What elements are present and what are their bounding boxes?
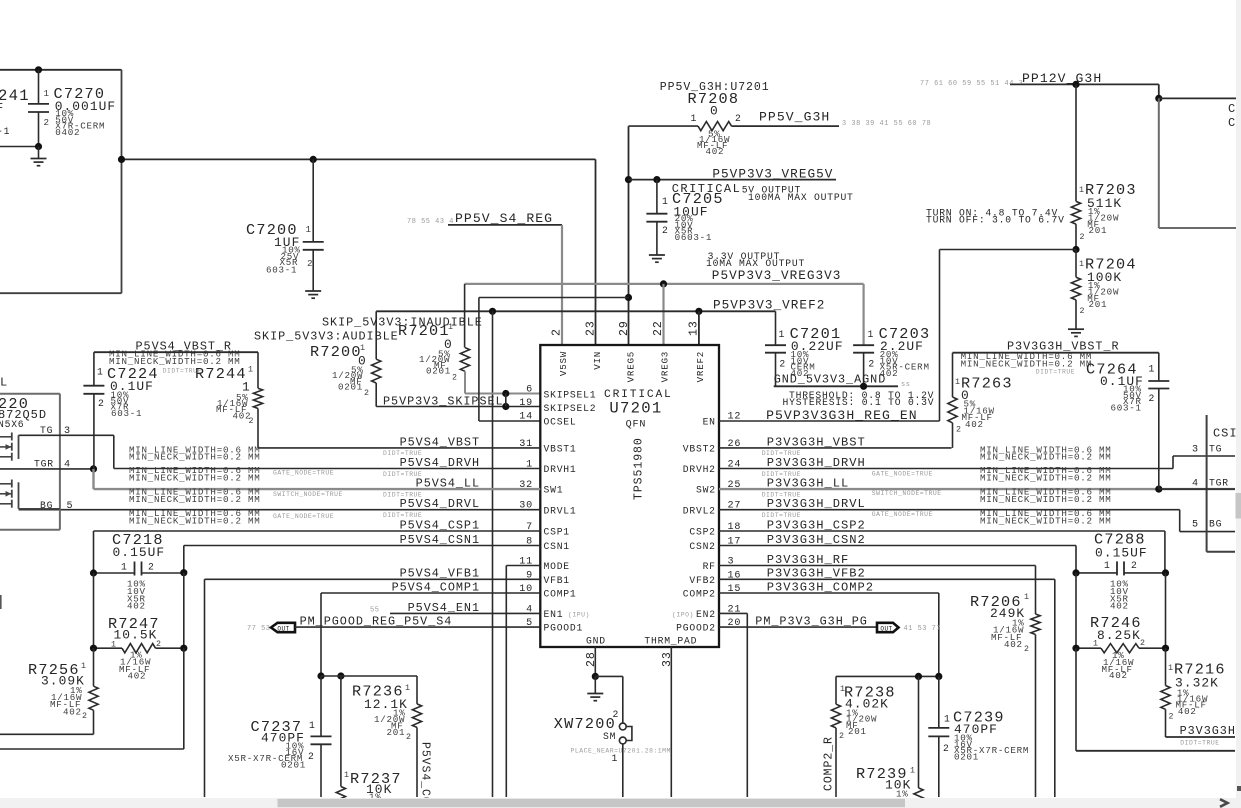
wire R7216 bottom net (1166, 736, 1236, 738)
svg-text:3 38 39 41 55 60 78: 3 38 39 41 55 60 78 (842, 120, 931, 128)
node LL at C7264 (1155, 486, 1162, 493)
svg-text:2: 2 (779, 359, 786, 370)
svg-text:DRVH2: DRVH2 (683, 464, 716, 475)
svg-text:41 53 77: 41 53 77 (904, 625, 942, 633)
scrollbar horizontal thumb (278, 799, 906, 807)
svg-text:13: 13 (688, 320, 701, 336)
svg-text:COMP2_R: COMP2_R (823, 736, 836, 791)
svg-text:SWITCH_NODE=TRUE: SWITCH_NODE=TRUE (872, 490, 942, 497)
resistor R7204 (1075, 250, 1077, 278)
node R7247 right (180, 645, 187, 652)
svg-text:PGOOD2: PGOOD2 (676, 623, 716, 634)
wire VIN rail from U7241 to VIN corner (122, 158, 596, 160)
svg-text:1: 1 (309, 720, 316, 731)
svg-text:P5VP3V3_VREG3V3: P5VP3V3_VREG3V3 (712, 268, 842, 283)
wire VREG3 vertical to pin 22 (662, 284, 664, 345)
node at R7237 branch (337, 672, 344, 679)
svg-text:SW1: SW1 (544, 485, 564, 496)
svg-text:OUT: OUT (880, 625, 892, 632)
svg-text:0201: 0201 (954, 751, 979, 762)
svg-text:1: 1 (97, 367, 104, 378)
ground under C7270 (31, 158, 47, 160)
node VREF2 long vertical tap (489, 308, 496, 315)
svg-text:603-1: 603-1 (1111, 402, 1142, 413)
svg-text:77 53: 77 53 (247, 625, 270, 633)
svg-text:MIN_NECK_WIDTH=0.2 MM: MIN_NECK_WIDTH=0.2 MM (129, 472, 261, 483)
svg-text:PM_P3V3_G3H_PG: PM_P3V3_G3H_PG (755, 615, 868, 629)
wire EN2 vertical to bottom (746, 613, 748, 797)
resistor R7238 (835, 676, 837, 704)
svg-text:2: 2 (1169, 713, 1175, 722)
capacitor C7237 (320, 676, 322, 736)
svg-text:DIDT=TRUE: DIDT=TRUE (1180, 740, 1219, 747)
node C7218 right (180, 569, 187, 576)
svg-text:55: 55 (370, 607, 379, 615)
wire VFB2 vertical to bottom (1054, 579, 1056, 797)
wire VREF2 down to R7200 (375, 311, 377, 359)
svg-text:VBST1: VBST1 (544, 444, 577, 455)
wire R7203 top (1075, 84, 1077, 201)
block top-right outline (off-canvas right) (1159, 97, 1236, 99)
node COMP1 net at C7237 (317, 672, 324, 679)
svg-text:0201: 0201 (281, 760, 306, 771)
svg-text:0201: 0201 (426, 366, 451, 377)
svg-text:VIN: VIN (592, 351, 603, 370)
svg-text:PGOOD1: PGOOD1 (544, 623, 584, 634)
svg-text:2: 2 (1024, 645, 1030, 654)
capacitor C7224 (93, 352, 95, 386)
resistor R7208 body (698, 122, 732, 131)
svg-text:402: 402 (1109, 670, 1128, 681)
wire P5VP3V3_VREG3V3 horizontal (465, 283, 864, 285)
node junction at block edge (118, 156, 125, 163)
wire P5VS4_VFB1 row (205, 578, 541, 580)
svg-text:DRVL2: DRVL2 (683, 505, 716, 516)
svg-text:GND_5V3V3_AGND: GND_5V3V3_AGND (774, 372, 887, 386)
svg-text:COMP2: COMP2 (683, 589, 716, 600)
svg-text:CSN1: CSN1 (544, 541, 570, 552)
svg-text:1: 1 (306, 224, 312, 235)
svg-text:1%: 1% (896, 789, 909, 800)
svg-text:1: 1 (1104, 560, 1111, 571)
svg-text:1: 1 (344, 771, 350, 780)
svg-text:1: 1 (1079, 260, 1085, 269)
svg-text:0: 0 (710, 104, 719, 119)
wire P3V3G3H_VBST row (719, 447, 952, 449)
resistor R7236 (416, 676, 418, 704)
wire P5VS4_EN1 row (390, 612, 540, 614)
svg-text:DRVH1: DRVH1 (544, 464, 577, 475)
wire long vertical from VREF2 to bottom (492, 311, 494, 797)
svg-text:2: 2 (1149, 393, 1156, 404)
svg-text:0402: 0402 (55, 127, 80, 138)
svg-text:100MA MAX OUTPUT: 100MA MAX OUTPUT (748, 192, 854, 203)
svg-text:1: 1 (868, 329, 875, 340)
wire CSN1 corner down to C7218 (183, 546, 185, 573)
wire P5VP3V3_SKIPSEL row pin 19 (376, 406, 540, 408)
wire GND_5V3V3_AGND (774, 385, 898, 387)
svg-text:TG: TG (1209, 443, 1222, 454)
svg-text:2: 2 (551, 328, 564, 336)
svg-text:DIDT=TRUE: DIDT=TRUE (762, 450, 801, 457)
svg-text:ss: ss (901, 381, 910, 389)
svg-text:402: 402 (1004, 639, 1023, 650)
svg-text:GATE_NODE=TRUE: GATE_NODE=TRUE (273, 513, 334, 520)
wire left stub to C7270 bottom (0, 146, 39, 148)
svg-text:402: 402 (965, 419, 984, 430)
svg-text:14: 14 (519, 412, 533, 423)
svg-text:CSI: CSI (1213, 426, 1238, 440)
svg-text:TGR: TGR (1209, 478, 1229, 489)
svg-text:1: 1 (840, 685, 846, 694)
svg-text:MIN_NECK_WIDTH=0.2 MM: MIN_NECK_WIDTH=0.2 MM (129, 494, 261, 505)
svg-text:SKIP_5V3V3:AUDIBLE: SKIP_5V3V3:AUDIBLE (254, 329, 399, 343)
svg-text:2: 2 (364, 389, 370, 398)
svg-text:TURN OFF: 3.0 TO 6.7V: TURN OFF: 3.0 TO 6.7V (926, 215, 1065, 226)
wire COMP2 vertical down (938, 593, 940, 676)
node R7239 top (915, 673, 922, 680)
wire R7208 pin1 segment (629, 125, 699, 127)
svg-text:603-1: 603-1 (266, 265, 297, 276)
node on top edge at C7270 (35, 66, 42, 73)
svg-text:DIDT=TRUE: DIDT=TRUE (1036, 369, 1075, 376)
svg-text:1: 1 (1149, 364, 1156, 375)
svg-text:SW2: SW2 (696, 485, 716, 496)
svg-text:1: 1 (121, 562, 128, 573)
ground under C7200 (305, 290, 321, 292)
node OCSEL tap on VREG5 (625, 294, 632, 301)
svg-text:6: 6 (526, 385, 533, 396)
scrollbar right arrow (1220, 799, 1228, 807)
svg-text:QFN: QFN (626, 420, 647, 431)
svg-text:R7201: R7201 (398, 322, 450, 340)
svg-text:0.15UF: 0.15UF (113, 545, 166, 560)
svg-text:0201: 0201 (338, 382, 363, 393)
svg-text:2: 2 (1131, 560, 1138, 571)
wire TGR pin row (1159, 488, 1235, 490)
connector CS1 block (1206, 415, 1208, 552)
svg-text:0.15UF: 0.15UF (1095, 546, 1148, 561)
svg-text:MIN_NECK_WIDTH=0.2 MM: MIN_NECK_WIDTH=0.2 MM (980, 472, 1112, 483)
svg-text:201: 201 (1089, 299, 1108, 310)
svg-text:1: 1 (955, 378, 961, 387)
node at top-right block (1155, 95, 1162, 102)
wire VIN vertical down to pin 23 (595, 159, 597, 345)
wire P3V3G3H_CSP2 row (719, 530, 1165, 532)
svg-text:MIN_NECK_WIDTH=0.2 MM: MIN_NECK_WIDTH=0.2 MM (980, 452, 1112, 463)
wire SKIPSEL1 row pin 6 (465, 393, 540, 395)
svg-text:OUT: OUT (277, 625, 289, 632)
svg-text:2: 2 (148, 562, 155, 573)
resistor R7263 (952, 353, 954, 397)
svg-text:TGR: TGR (34, 459, 54, 470)
wire P5VS4_VBST row (258, 447, 540, 449)
svg-text:SWITCH_NODE=TRUE: SWITCH_NODE=TRUE (273, 491, 343, 498)
svg-text:VREG5: VREG5 (626, 351, 637, 382)
scrollbar horizontal track (0, 798, 1241, 808)
resistor R7201 (460, 348, 469, 372)
wire CSP2 down to C7288 (1164, 531, 1166, 573)
svg-text:2: 2 (307, 258, 313, 269)
svg-text:MIN_NECK_WIDTH=0.2 MM: MIN_NECK_WIDTH=0.2 MM (980, 494, 1112, 505)
wire GND to XW7200 (595, 675, 623, 677)
wire P3V3G3H_DRVH row (719, 468, 1173, 470)
svg-text:DIDT=TRUE: DIDT=TRUE (762, 491, 801, 498)
svg-text:EN2: EN2 (696, 609, 716, 620)
wire OCSEL net (479, 297, 629, 299)
wire MODE vertical to bottom (505, 566, 507, 798)
svg-text:VFB1: VFB1 (544, 575, 570, 586)
wire PGOOD1 row (295, 626, 540, 628)
wire PP5V_S4_REG underline (448, 224, 562, 226)
svg-text:SM: SM (603, 731, 616, 742)
svg-text:1: 1 (360, 344, 366, 353)
wire VREF2 vertical to pin 13 (698, 311, 700, 345)
svg-text:0603-1: 0603-1 (675, 232, 713, 243)
svg-text:1: 1 (248, 366, 254, 375)
svg-text:402: 402 (1178, 706, 1197, 717)
resistor R7239 (918, 676, 920, 788)
svg-text:RF: RF (703, 561, 716, 572)
svg-text:SKIPSEL1: SKIPSEL1 (544, 389, 597, 400)
capacitor C7200 (312, 159, 314, 242)
svg-text:(IPU): (IPU) (568, 612, 590, 619)
wire TGR node to LL row (92, 469, 94, 489)
wire P5VS4_LL row (94, 488, 541, 490)
wire P3V3G3H_LL row (719, 488, 1235, 490)
capacitor C7264 (1158, 353, 1160, 381)
wire SKIPSEL link vertical (505, 394, 507, 407)
svg-text:N5X6: N5X6 (0, 419, 24, 430)
capacitor C7201 (775, 311, 777, 345)
wire BG lead to DRVL row (19, 508, 60, 510)
node VREG3 pin tap (660, 280, 667, 287)
svg-text:DIDT=TRUE: DIDT=TRUE (383, 512, 422, 519)
svg-text:COMP1: COMP1 (544, 589, 577, 600)
wire VREG3V3 down to C7203 (862, 284, 864, 345)
transistor Q7220 MOSFET 2 symbol (18, 482, 20, 509)
svg-text:GATE_NODE=TRUE: GATE_NODE=TRUE (872, 511, 933, 518)
wire VFB1 vertical to bottom (204, 579, 206, 797)
wire DRVL step to BG pin (1179, 510, 1181, 532)
wire TG step down to DRVH row (113, 435, 115, 468)
svg-text:(IPO): (IPO) (672, 612, 694, 619)
svg-text:1: 1 (44, 88, 50, 99)
node SKIPSEL link bottom (502, 403, 509, 410)
svg-text:2: 2 (82, 712, 88, 721)
svg-text:P5VS4_CO: P5VS4_CO (419, 742, 432, 805)
svg-text:2: 2 (868, 359, 875, 370)
svg-text:MIN_NECK_WIDTH=0.2 MM: MIN_NECK_WIDTH=0.2 MM (129, 452, 261, 463)
svg-text:78 55 43 4: 78 55 43 4 (407, 218, 454, 226)
svg-text:2: 2 (613, 709, 620, 720)
svg-text:C: C (1228, 102, 1236, 116)
svg-text:CSP2: CSP2 (689, 527, 715, 538)
svg-text:VREF2: VREF2 (695, 351, 706, 382)
wire P5VP3V3_VREG5V (629, 179, 837, 181)
svg-text:23: 23 (584, 320, 597, 336)
wire XW7200 pin1 to bottom (622, 744, 624, 797)
wire P5VS4_CSP1 row (94, 530, 541, 532)
svg-text:PP5V_G3H: PP5V_G3H (759, 110, 830, 125)
node AGND at C7203 (860, 383, 867, 390)
svg-text:C: C (1228, 116, 1236, 130)
node R7246 left (1072, 645, 1079, 652)
svg-text:1: 1 (1168, 664, 1174, 673)
svg-text:402: 402 (128, 671, 147, 682)
svg-text:L: L (0, 376, 8, 390)
wire CSN2 down to C7288 (1075, 546, 1077, 573)
capacitor C7270 (38, 70, 40, 104)
svg-text:22: 22 (652, 320, 665, 336)
svg-text:MIN_NECK_WIDTH=0.2 MM: MIN_NECK_WIDTH=0.2 MM (129, 515, 261, 526)
node VREF2 pin tap (695, 308, 702, 315)
svg-text:2: 2 (956, 426, 962, 435)
svg-text:TG: TG (40, 425, 53, 436)
svg-text:5: 5 (1192, 520, 1199, 531)
svg-text:TPS51980: TPS51980 (633, 437, 646, 500)
node C7288 right (1162, 569, 1169, 576)
op-amp U7201 TPS51980 body (540, 345, 719, 647)
svg-text:1: 1 (1024, 593, 1030, 602)
svg-text:29: 29 (618, 320, 631, 336)
wire P3V3G3H_VFB2 row (719, 578, 1055, 580)
svg-text:CSN2: CSN2 (689, 541, 715, 552)
wire P3V3G3H_DRVL row (719, 509, 1180, 511)
scrollbar vertical bottom mark (1237, 786, 1241, 791)
scrollbar vertical track (1236, 0, 1241, 798)
wire P3V3G3H_COMP2 row (719, 592, 939, 594)
capacitor C7205 (656, 180, 658, 214)
wire EN from divider (940, 249, 1077, 251)
wire left vertical between C7218 and R7247 (93, 573, 95, 648)
svg-text:2: 2 (943, 743, 950, 754)
svg-text:2: 2 (406, 733, 412, 742)
svg-text:GATE_NODE=TRUE: GATE_NODE=TRUE (872, 471, 933, 478)
node VREG5V at x628 (625, 176, 632, 183)
resistor R7216 (1165, 648, 1167, 685)
svg-text:PLACE_NEAR=U7201.28:1MM: PLACE_NEAR=U7201.28:1MM (571, 748, 671, 755)
node divider junction (1072, 246, 1079, 253)
svg-text:201: 201 (387, 727, 406, 738)
svg-text:1: 1 (779, 329, 786, 340)
port flag PM_P3V3_G3H_PG (877, 623, 899, 632)
wire PP12V_G3H (1010, 83, 1159, 85)
resistor R7200 (372, 359, 381, 383)
wire P5VP3V3_VREF2 horizontal (376, 310, 775, 312)
svg-text:F: F (0, 101, 4, 115)
ground under C7205 (649, 254, 665, 256)
node TGR / C7224 bottom (90, 465, 97, 472)
wire COMP2 network top (836, 675, 939, 677)
node PP12V at R7203 (1072, 81, 1079, 88)
svg-text:BG: BG (1209, 519, 1222, 530)
svg-text:CSP1: CSP1 (544, 527, 570, 538)
svg-text:EN1: EN1 (544, 609, 564, 620)
svg-text:1: 1 (1079, 186, 1085, 195)
svg-text:DIDT=TRUE: DIDT=TRUE (383, 491, 422, 498)
node at C7200 top (310, 156, 317, 163)
svg-text:8.25K: 8.25K (1097, 628, 1141, 643)
svg-text:MIN_NECK_WIDTH=0.2 MM: MIN_NECK_WIDTH=0.2 MM (980, 515, 1112, 526)
svg-text:402: 402 (1110, 601, 1129, 612)
transistor Q7220 block outline (0, 393, 60, 395)
resistor R7203 (1071, 201, 1080, 224)
svg-text:1: 1 (944, 714, 951, 725)
svg-text:R7244: R7244 (195, 365, 247, 383)
resistor R7206 (1031, 614, 1040, 635)
svg-text:4: 4 (1192, 479, 1199, 490)
svg-text:DIDT=TRUE: DIDT=TRUE (383, 450, 422, 457)
svg-text:402: 402 (63, 707, 82, 718)
svg-text:VFB2: VFB2 (689, 575, 715, 586)
wire comp network top (321, 675, 417, 677)
svg-text:2: 2 (1140, 639, 1146, 648)
ground under R7204 (1068, 328, 1084, 330)
wire COMP1 vertical down (320, 593, 322, 676)
node C7288 left (1072, 569, 1079, 576)
svg-text:2: 2 (1080, 307, 1086, 316)
svg-text:1: 1 (81, 662, 87, 671)
svg-text:19: 19 (519, 398, 533, 409)
capacitor C7203 (853, 344, 874, 346)
wire V5SW vertical down to pin 2 (561, 225, 563, 345)
wire P5VS4_VBST_R (94, 351, 258, 353)
node C7239 top (935, 673, 942, 680)
wire VREG5 vertical (628, 126, 630, 345)
svg-text:402: 402 (127, 601, 146, 612)
svg-text:603-1: 603-1 (111, 408, 142, 419)
transistor Q7220 MOSFET 1 symbol (18, 435, 20, 459)
svg-text:R7200: R7200 (310, 343, 362, 361)
svg-text:5: 5 (67, 501, 74, 512)
wire CSP1 corner down to C7218 (93, 531, 95, 573)
svg-text:201: 201 (1089, 225, 1108, 236)
svg-text:1: 1 (691, 113, 698, 124)
svg-text:MODE: MODE (544, 561, 570, 572)
svg-text:402: 402 (706, 146, 725, 157)
svg-text:DIDT=TRUE: DIDT=TRUE (762, 512, 801, 519)
svg-text:THRM_PAD: THRM_PAD (644, 636, 697, 647)
left edge fragment (0, 595, 2, 609)
svg-text:1: 1 (910, 767, 916, 776)
svg-text:3: 3 (1192, 444, 1199, 455)
wire VREG3V3 down to R7201 (464, 284, 466, 348)
node R7246 right (1162, 645, 1169, 652)
svg-text:PP5V_S4_REG: PP5V_S4_REG (455, 211, 553, 226)
svg-text:GATE_NODE=TRUE: GATE_NODE=TRUE (273, 470, 334, 477)
svg-text:1: 1 (1093, 640, 1099, 649)
wire MODE stub (506, 565, 540, 567)
svg-text:1: 1 (662, 196, 669, 207)
svg-text:2: 2 (44, 117, 50, 128)
node C7218 left (90, 569, 97, 576)
node SKIPSEL link top (502, 390, 509, 397)
resistor R7237 (340, 676, 342, 787)
wire CSN2 branch to bottom right (1075, 648, 1077, 751)
wire P5VS4_CSN1 row (184, 545, 541, 547)
svg-text:2: 2 (249, 417, 255, 426)
svg-text:OCSEL: OCSEL (544, 417, 577, 428)
svg-text:2: 2 (308, 751, 315, 762)
wire PGOOD2 row (719, 626, 877, 628)
wire RF down to R7206 (1035, 566, 1037, 615)
svg-text:HYSTERESIS: 0.1 TO 0.3V: HYSTERESIS: 0.1 TO 0.3V (783, 397, 935, 408)
wire R7256 bottom to left edge (0, 733, 94, 735)
node C7205 top (653, 176, 660, 183)
wire DRVH step to TG pin (1172, 456, 1174, 469)
node R7247 left (90, 645, 97, 652)
